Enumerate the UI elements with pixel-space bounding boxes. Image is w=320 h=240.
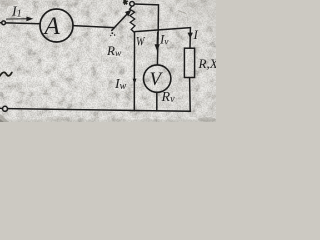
svg-text:R,X: R,X [198,56,217,71]
svg-text:W: W [136,35,146,49]
svg-text:I: I [193,27,199,42]
svg-text:A: A [43,13,61,40]
